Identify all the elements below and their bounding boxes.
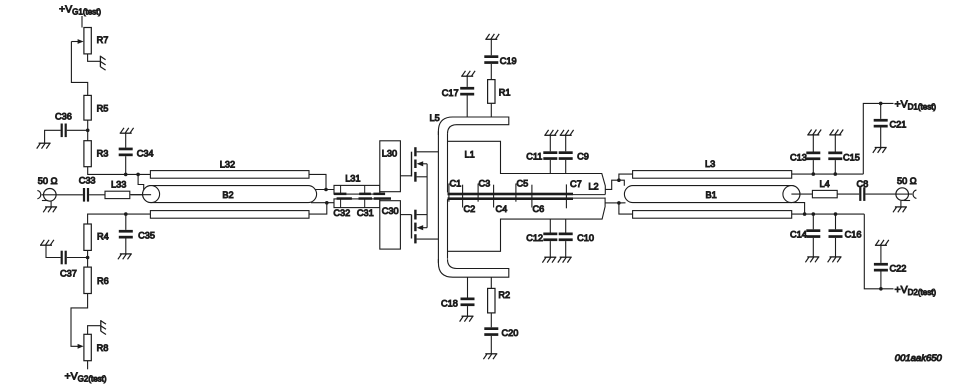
- svg-text:C14: C14: [790, 230, 807, 240]
- svg-text:R7: R7: [97, 35, 109, 45]
- svg-text:L30: L30: [382, 149, 397, 159]
- svg-text:C32: C32: [333, 208, 350, 218]
- svg-text:C35: C35: [138, 231, 155, 241]
- svg-text:L3: L3: [705, 159, 715, 169]
- svg-text:C3: C3: [479, 179, 491, 189]
- svg-text:R2: R2: [498, 290, 510, 300]
- svg-text:C36: C36: [55, 112, 72, 122]
- svg-text:C4: C4: [496, 204, 508, 214]
- svg-text:B1: B1: [706, 190, 717, 200]
- svg-text:L33: L33: [111, 180, 126, 190]
- svg-text:C17: C17: [442, 88, 459, 98]
- svg-text:C8: C8: [857, 179, 869, 189]
- svg-text:R8: R8: [97, 343, 109, 353]
- svg-text:C12: C12: [526, 233, 543, 243]
- svg-text:001aak650: 001aak650: [895, 353, 943, 364]
- svg-text:L4: L4: [820, 179, 830, 189]
- svg-text:C6: C6: [533, 204, 545, 214]
- svg-text:C20: C20: [502, 328, 519, 338]
- svg-text:50 Ω: 50 Ω: [897, 176, 917, 186]
- svg-text:C21: C21: [890, 120, 907, 130]
- svg-text:C16: C16: [845, 230, 862, 240]
- svg-text:C22: C22: [890, 264, 907, 274]
- svg-text:C30: C30: [382, 206, 399, 216]
- svg-text:C2: C2: [464, 204, 476, 214]
- svg-text:B2: B2: [222, 190, 233, 200]
- svg-text:C15: C15: [843, 153, 860, 163]
- svg-text:L1: L1: [465, 149, 475, 159]
- svg-text:L31: L31: [345, 174, 360, 184]
- svg-text:C10: C10: [577, 233, 594, 243]
- svg-text:R3: R3: [97, 149, 109, 159]
- svg-text:R4: R4: [97, 232, 109, 242]
- svg-text:C5: C5: [517, 179, 529, 189]
- svg-text:C9: C9: [577, 152, 589, 162]
- svg-text:C11: C11: [526, 152, 542, 162]
- svg-text:C37: C37: [60, 269, 77, 279]
- svg-text:C18: C18: [441, 299, 458, 309]
- svg-text:L32: L32: [220, 160, 235, 170]
- svg-text:R6: R6: [97, 276, 109, 286]
- svg-text:L2: L2: [588, 182, 598, 192]
- svg-text:C31: C31: [357, 208, 374, 218]
- svg-text:C19: C19: [500, 56, 517, 66]
- svg-text:R1: R1: [499, 88, 511, 98]
- svg-text:C33: C33: [79, 176, 96, 186]
- svg-text:C13: C13: [790, 153, 807, 163]
- svg-text:R5: R5: [97, 104, 109, 114]
- svg-text:50 Ω: 50 Ω: [38, 176, 58, 186]
- svg-text:C34: C34: [137, 149, 154, 159]
- svg-text:L5: L5: [430, 113, 440, 123]
- svg-text:C1: C1: [450, 179, 462, 189]
- svg-text:C7: C7: [570, 179, 582, 189]
